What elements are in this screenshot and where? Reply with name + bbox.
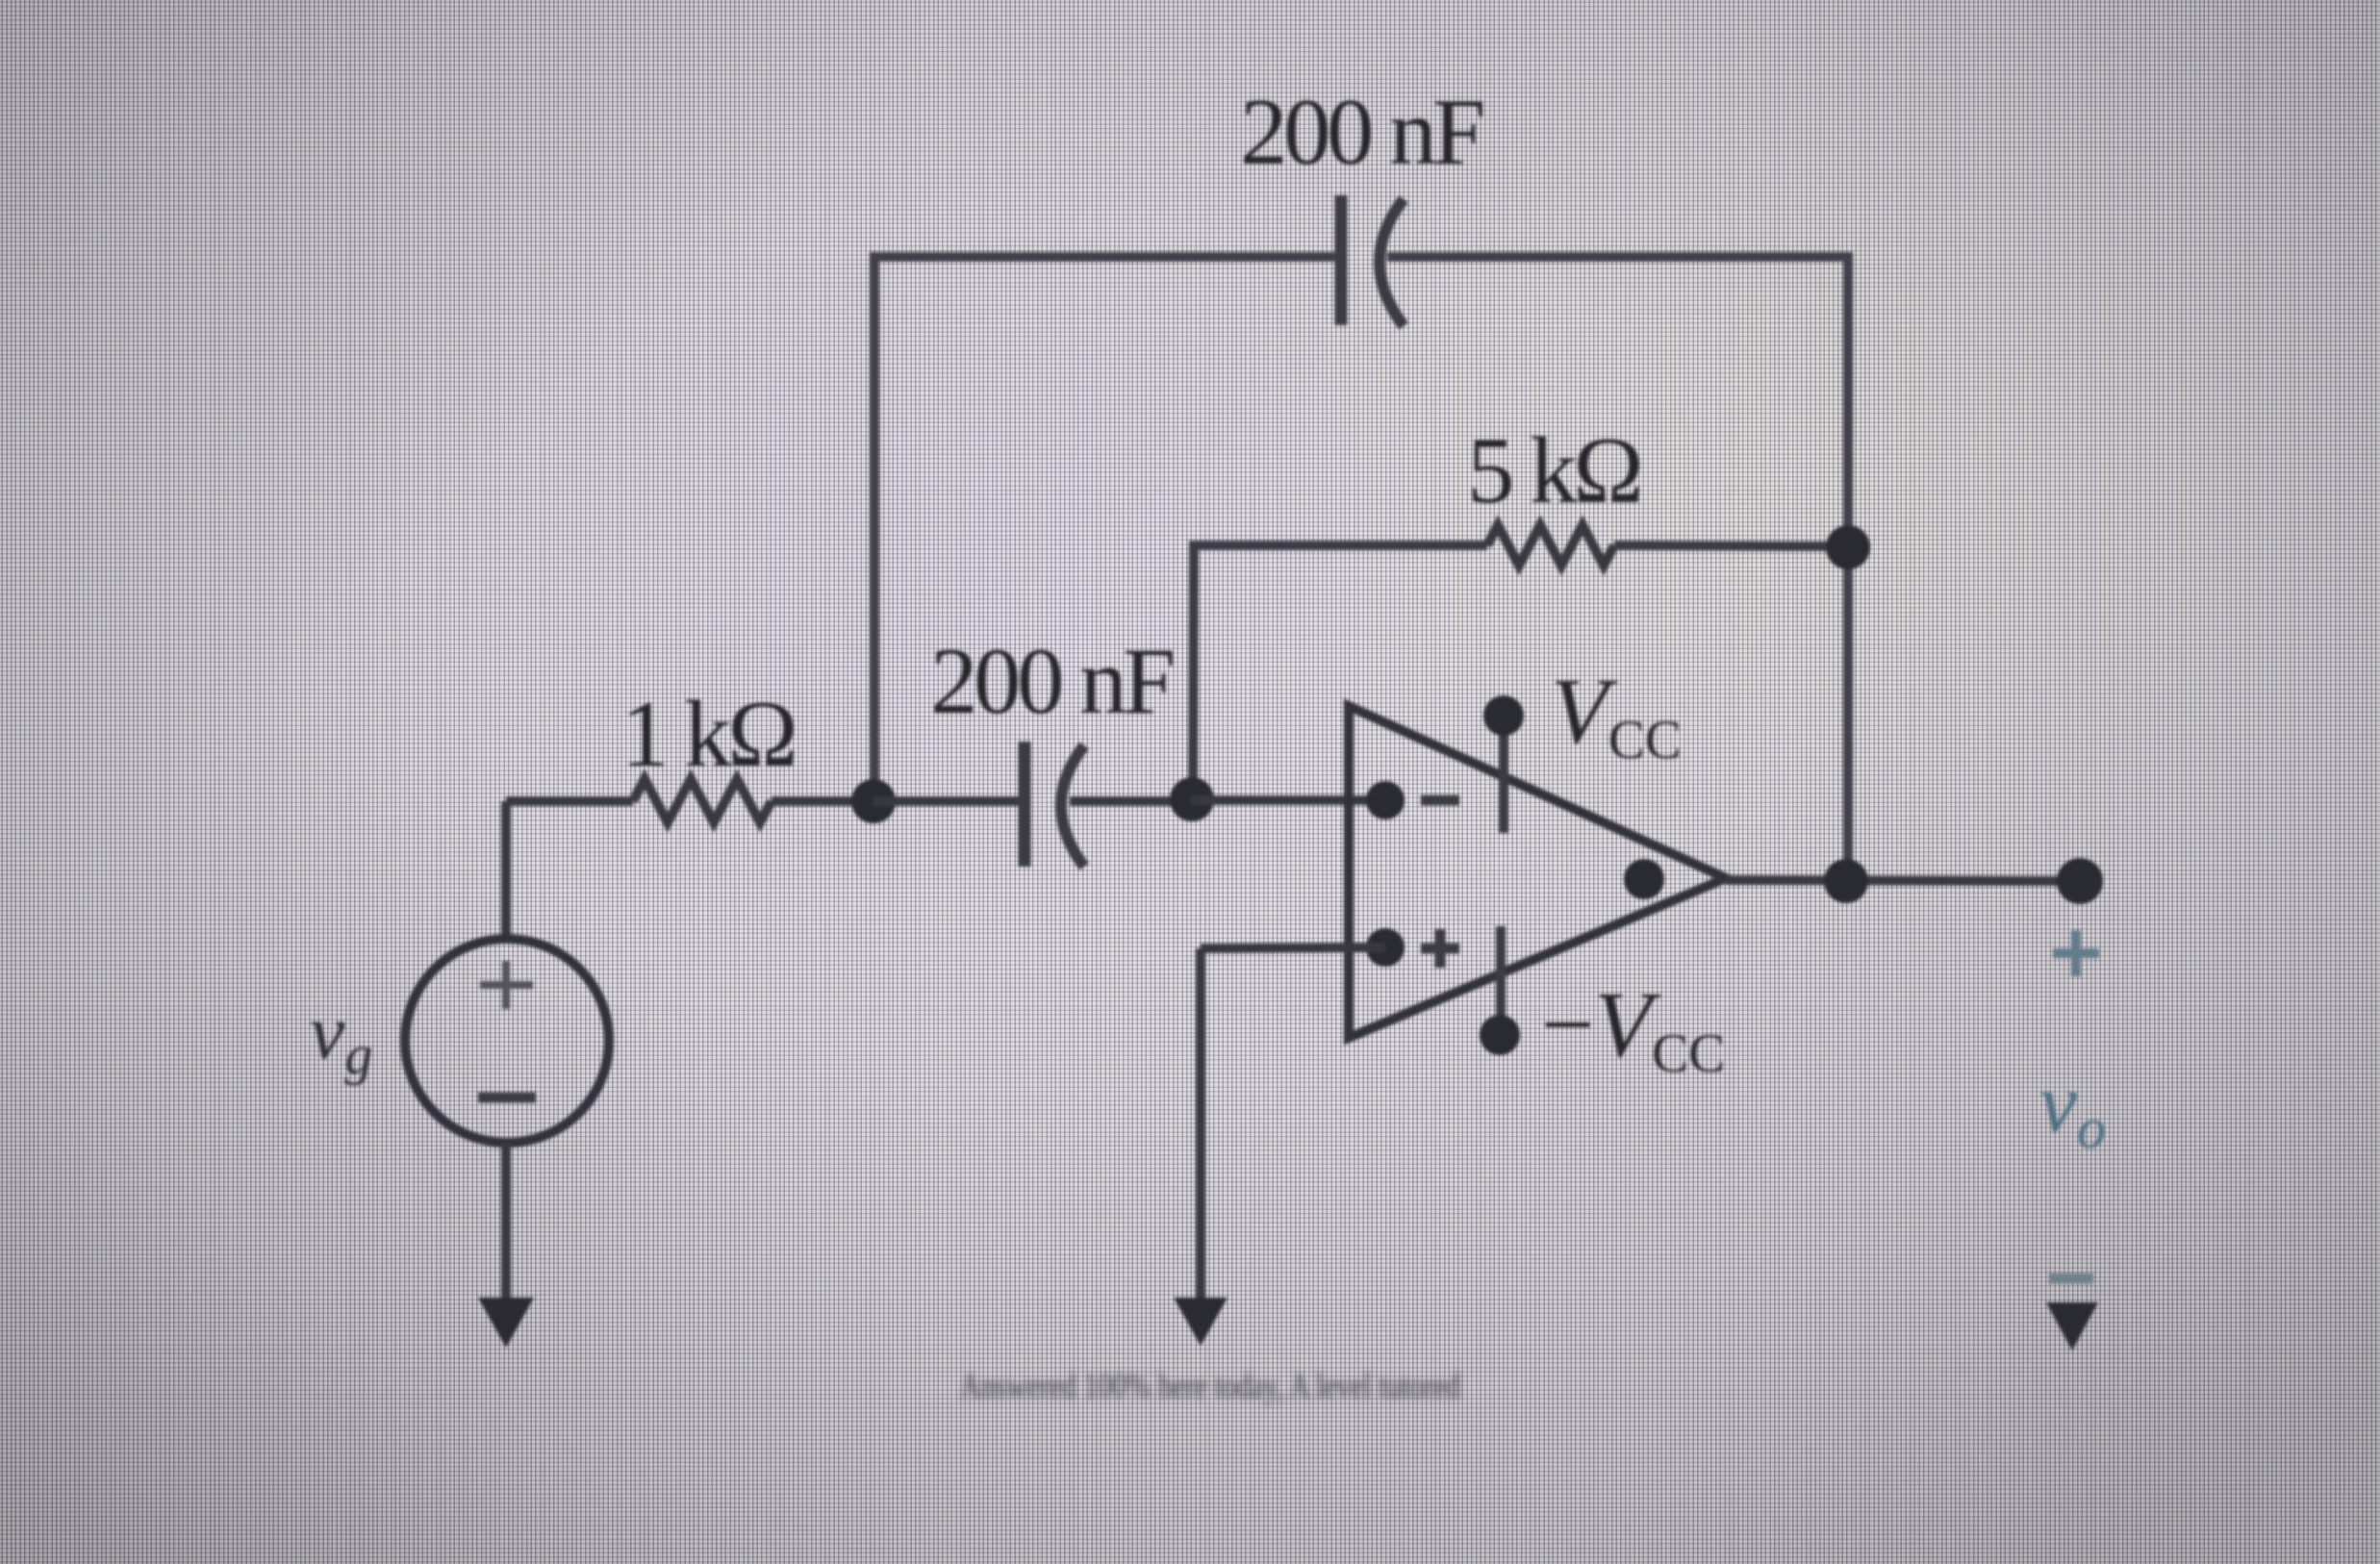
label plus (output polarity) <box>2053 930 2099 976</box>
wire non-inverting input to ground branch <box>1201 947 1385 948</box>
svg-text:Answered 100% here today, A le: Answered 100% here today, A level tutore… <box>960 1367 1460 1406</box>
svg-text:vg: vg <box>310 988 372 1086</box>
op-amp plus sign <box>1421 929 1459 968</box>
resistor R2 5 kOhm zigzag <box>1487 525 1614 566</box>
op-amp Vcc pin dot <box>1483 695 1524 736</box>
output terminal dot <box>2057 858 2103 904</box>
capacitor C1 curved right plate <box>1380 199 1404 326</box>
svg-text:200 nF: 200 nF <box>1240 80 1482 185</box>
ground arrow (middle) <box>1174 1298 1228 1346</box>
label minus (output polarity) <box>2049 1274 2093 1284</box>
watermark faint text bottom <box>960 1367 1460 1406</box>
ground arrow (right output) <box>2046 1302 2098 1350</box>
wire node B to op-amp inverting input <box>1192 795 1385 805</box>
source plus sign <box>480 961 533 1009</box>
svg-text:VCC: VCC <box>1551 660 1682 770</box>
wire from C1 to top-right corner and down to output node <box>1387 257 1848 882</box>
capacitor C2 200 nF (series input) left plate <box>1019 742 1031 867</box>
wire C2 to node B <box>1070 796 1193 806</box>
svg-text:200 nF: 200 nF <box>930 629 1173 734</box>
svg-text:5 kΩ: 5 kΩ <box>1467 418 1639 523</box>
ground branch below non-inverting input <box>1196 948 1205 1303</box>
wire source bottom to ground <box>501 1143 511 1303</box>
svg-text:1 kΩ: 1 kΩ <box>621 682 794 787</box>
source minus sign <box>478 1093 536 1103</box>
ground arrow (left source) <box>478 1298 534 1348</box>
wire source top: corner down to source circle <box>501 801 511 939</box>
op-amp minus sign <box>1421 795 1459 806</box>
op-amp output dot <box>1624 859 1664 899</box>
wire top feedback from node A up and across <box>874 257 1336 801</box>
wire from R1 to node A <box>772 796 874 806</box>
wire main input line from source corner to 1k resistor <box>506 796 633 806</box>
op-amp minus Vcc pin bar <box>1496 926 1506 1031</box>
source vg circle <box>405 939 609 1143</box>
node B junction dot <box>1170 777 1214 821</box>
capacitor C2 curved right plate <box>1061 745 1084 867</box>
capacitor C1 200 nF (top feedback) left plate <box>1335 195 1348 325</box>
op-amp Vcc pin bar <box>1499 719 1508 833</box>
wire from R2 to right vertical <box>1614 545 1845 546</box>
wire 5k feedback branch: up from node B, right to resistor <box>1193 545 1487 800</box>
op-amp U1 triangle <box>1349 706 1726 1038</box>
op-amp non-inverting input dot <box>1366 928 1405 967</box>
node junction dot at 5k / right vertical <box>1826 525 1870 569</box>
node A junction dot <box>851 779 896 823</box>
op-amp minus Vcc pin dot <box>1480 1015 1520 1055</box>
op-amp inverting input dot <box>1366 781 1405 820</box>
svg-text:vo: vo <box>2039 1057 2106 1160</box>
resistor R1 1 kOhm zigzag <box>633 779 772 822</box>
wire node A to capacitor C2 <box>874 796 1020 806</box>
node junction dot output / right vertical <box>1824 859 1868 903</box>
svg-text:−VCC: −VCC <box>1541 973 1725 1084</box>
wire op-amp output to terminal <box>1726 880 2081 881</box>
